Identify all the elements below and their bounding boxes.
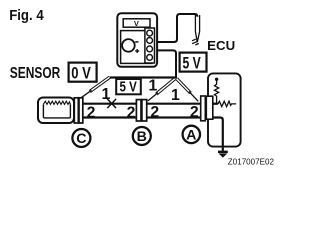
svg-text:Z017007E02: Z017007E02: [228, 157, 274, 167]
svg-text:1: 1: [149, 77, 158, 94]
svg-text:2: 2: [127, 104, 136, 121]
svg-text:A: A: [186, 128, 196, 144]
svg-text:0 V: 0 V: [71, 63, 91, 82]
svg-text:Fig. 4: Fig. 4: [9, 7, 44, 24]
svg-text:2: 2: [150, 104, 159, 121]
svg-text:2: 2: [87, 105, 96, 122]
svg-text:B: B: [137, 129, 147, 145]
svg-text:2: 2: [190, 104, 199, 121]
svg-text:V: V: [134, 19, 139, 28]
svg-text:1: 1: [102, 86, 111, 103]
svg-text:SENSOR: SENSOR: [10, 65, 61, 82]
svg-text:1: 1: [171, 87, 180, 104]
svg-text:5 V: 5 V: [183, 53, 202, 72]
svg-text:5 V: 5 V: [120, 79, 137, 96]
svg-text:ECU: ECU: [207, 38, 235, 53]
svg-text:C: C: [76, 131, 86, 147]
